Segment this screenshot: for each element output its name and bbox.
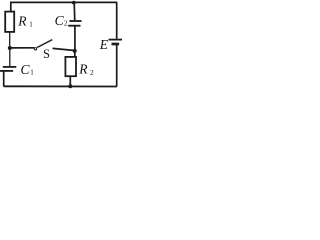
label C2	[55, 13, 68, 28]
switch S lever	[37, 40, 52, 48]
node junction top	[72, 1, 76, 5]
node junction right-middle	[73, 49, 77, 53]
wire R2 bottom stub	[69, 76, 71, 86]
wire top-left stub	[10, 2, 12, 12]
svg-text:R: R	[78, 62, 88, 77]
label R1	[17, 14, 33, 29]
capacitor C1 bottom plate	[0, 70, 13, 72]
switch S pivot	[34, 48, 36, 50]
wire bottom-left vertical	[3, 71, 5, 87]
wire junction up to C2	[74, 26, 76, 51]
battery E long plate	[109, 39, 123, 41]
node junction left-middle	[8, 46, 12, 50]
resistor R2	[65, 57, 76, 76]
svg-text:S: S	[43, 47, 50, 61]
label R2	[78, 62, 94, 77]
wire C1 top to junction	[9, 48, 11, 67]
svg-text:1: 1	[29, 20, 33, 28]
wire junction down to R2	[74, 51, 76, 57]
capacitor C2 top plate	[69, 20, 81, 22]
capacitor C2 bottom plate	[68, 25, 80, 27]
wire C2 top to top wire	[73, 3, 76, 21]
wire top horizontal	[10, 1, 117, 3]
wire R1 bottom to junction	[9, 32, 11, 48]
capacitor C1 top plate	[3, 66, 16, 68]
wire right vertical lower	[116, 45, 118, 86]
svg-text:E: E	[99, 37, 109, 52]
node junction bottom	[68, 84, 72, 88]
svg-text:R: R	[17, 14, 27, 29]
wire middle-left to switch	[10, 47, 34, 49]
svg-text:C: C	[21, 62, 31, 77]
svg-text:2: 2	[90, 69, 94, 77]
wire right vertical upper	[116, 2, 118, 38]
svg-text:1: 1	[30, 69, 34, 77]
resistor R1	[5, 12, 14, 32]
wire switch to junction	[53, 48, 75, 50]
label C1	[21, 62, 35, 77]
svg-text:2: 2	[64, 20, 68, 28]
battery E short plate	[112, 43, 120, 46]
wire bottom horizontal	[4, 85, 117, 87]
